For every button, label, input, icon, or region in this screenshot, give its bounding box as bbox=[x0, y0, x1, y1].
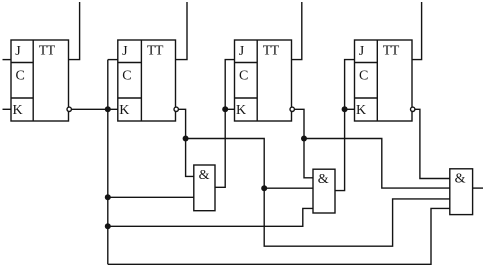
svg-text:TT: TT bbox=[383, 44, 400, 59]
svg-text:TT: TT bbox=[263, 44, 280, 59]
svg-text:J: J bbox=[15, 44, 21, 59]
svg-text:K: K bbox=[13, 103, 23, 118]
svg-text:&: & bbox=[455, 172, 466, 187]
svg-text:C: C bbox=[359, 69, 368, 84]
svg-text:C: C bbox=[239, 69, 248, 84]
svg-text:K: K bbox=[119, 103, 129, 118]
svg-text:C: C bbox=[16, 69, 25, 84]
svg-text:TT: TT bbox=[147, 44, 164, 59]
svg-text:J: J bbox=[359, 44, 365, 59]
svg-text:J: J bbox=[239, 44, 245, 59]
svg-text:&: & bbox=[199, 168, 210, 183]
svg-text:TT: TT bbox=[39, 44, 56, 59]
svg-text:K: K bbox=[356, 103, 366, 118]
svg-text:C: C bbox=[122, 69, 131, 84]
svg-text:J: J bbox=[122, 44, 128, 59]
svg-text:K: K bbox=[236, 103, 246, 118]
svg-text:&: & bbox=[318, 172, 329, 187]
